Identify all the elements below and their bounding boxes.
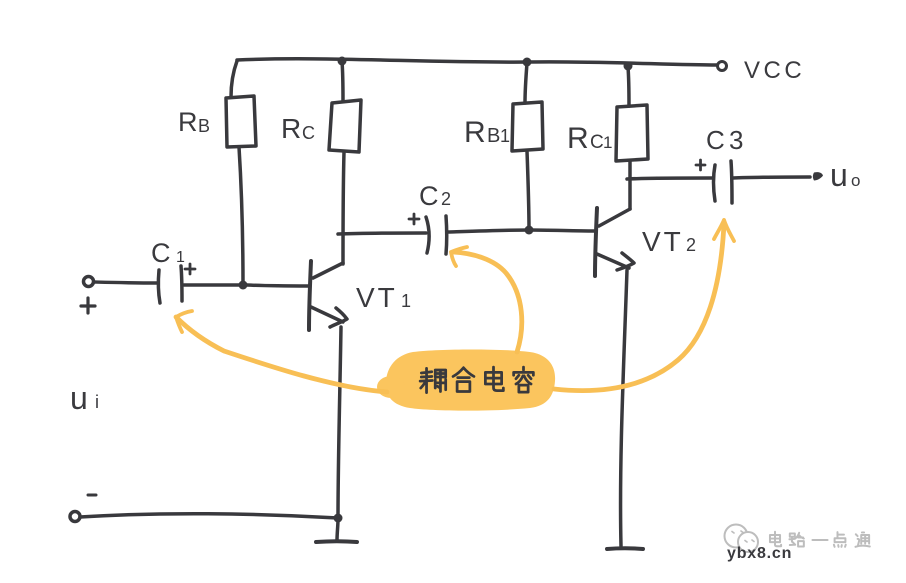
polarity plus C1	[185, 264, 195, 274]
plus sign input	[81, 298, 95, 313]
wire C2 node line	[338, 233, 426, 234]
svg-text:3: 3	[729, 125, 743, 155]
svg-text:1: 1	[401, 291, 411, 311]
svg-text:2: 2	[686, 235, 696, 255]
svg-text:R: R	[281, 113, 301, 144]
resistor RC	[329, 100, 361, 152]
transistor VT2 collector diagonal	[599, 209, 630, 226]
svg-text:1: 1	[500, 126, 510, 146]
annotation arrow to C2	[453, 252, 522, 352]
wire C2 to VT2 base	[448, 230, 594, 232]
wire RC to VT1 collector	[343, 152, 344, 264]
transistor VT1 emitter diagonal	[311, 307, 343, 322]
svg-text:C: C	[419, 181, 439, 211]
wire rail to RB1	[525, 63, 527, 103]
wire rail to RC	[342, 61, 343, 101]
node junction ground 1	[334, 514, 343, 523]
svg-text:ybx8.cn: ybx8.cn	[727, 545, 792, 562]
capacitor C2	[426, 217, 429, 253]
bottom terminal	[70, 512, 80, 522]
wire C1 to base node	[184, 283, 240, 287]
watermark logo bubbles	[725, 525, 759, 553]
node junction C2/RB1/VT2 base	[525, 226, 534, 235]
wire bottom rail	[80, 514, 338, 518]
capacitor C3	[714, 165, 716, 201]
svg-text:1: 1	[176, 249, 185, 266]
input terminal	[84, 277, 94, 287]
svg-text:R: R	[178, 107, 198, 137]
annotation arrow to C3	[554, 223, 724, 391]
transistor VT2 base bar	[595, 208, 597, 276]
svg-text:VCC: VCC	[744, 57, 805, 84]
svg-text:R: R	[567, 122, 589, 155]
VCC terminal	[718, 62, 727, 71]
transistor VT1 collector diagonal	[313, 263, 343, 278]
wire collector node to C3	[627, 178, 712, 179]
svg-text:u: u	[830, 157, 848, 193]
svg-text:C: C	[706, 125, 725, 155]
resistor RC1	[616, 105, 648, 161]
wire rail to RB	[231, 61, 237, 97]
resistor RB	[226, 96, 256, 147]
wire base node to VT1	[247, 285, 308, 286]
svg-text:C: C	[151, 238, 171, 268]
polarity plus C2	[409, 214, 419, 224]
svg-text:o: o	[851, 171, 860, 190]
transistor VT1 emitter arrow	[330, 308, 347, 327]
output terminal	[813, 172, 823, 180]
annotation balloon	[377, 349, 555, 410]
svg-text:R: R	[464, 116, 486, 149]
wire VCC top rail	[237, 59, 717, 65]
ground 1	[337, 519, 338, 541]
svg-text:B: B	[198, 116, 210, 136]
svg-text:1: 1	[603, 133, 612, 152]
ground 2	[607, 546, 643, 551]
svg-text:i: i	[95, 392, 99, 412]
svg-text:u: u	[70, 380, 88, 416]
transistor VT2 emitter diagonal	[597, 254, 629, 268]
node junction on rail above RB1	[523, 58, 532, 67]
wire VT1 emitter down	[338, 327, 341, 518]
watermark text 电路一点通	[770, 532, 781, 547]
minus sign input	[88, 494, 96, 497]
polarity plus C3	[696, 160, 705, 170]
node junction RB/C1/VT1 base	[239, 281, 248, 290]
transistor VT2 emitter arrow	[617, 253, 634, 270]
svg-text:C: C	[590, 132, 604, 153]
transistor VT1 base bar	[309, 261, 311, 330]
annotation text 耦合电容	[420, 368, 446, 392]
capacitor C1	[158, 270, 160, 303]
svg-text:B: B	[487, 125, 500, 147]
node junction on rail above RC1	[624, 62, 633, 71]
svg-text:VT: VT	[356, 282, 398, 313]
wire RC1 to VT2 collector	[628, 161, 632, 209]
svg-text:VT: VT	[642, 226, 684, 257]
wire input to C1	[94, 282, 157, 283]
annotation arrow to C1	[176, 317, 387, 392]
wire RB1 to base node	[527, 151, 529, 230]
wire VT2 emitter down	[621, 270, 627, 546]
wire C3 to output	[733, 177, 810, 178]
wire RB to base node	[239, 147, 243, 285]
svg-text:C: C	[302, 123, 315, 143]
node junction on rail above RC	[338, 57, 347, 66]
resistor RB1	[512, 102, 543, 151]
wire rail to RC1	[628, 67, 629, 106]
svg-text:2: 2	[441, 189, 451, 209]
